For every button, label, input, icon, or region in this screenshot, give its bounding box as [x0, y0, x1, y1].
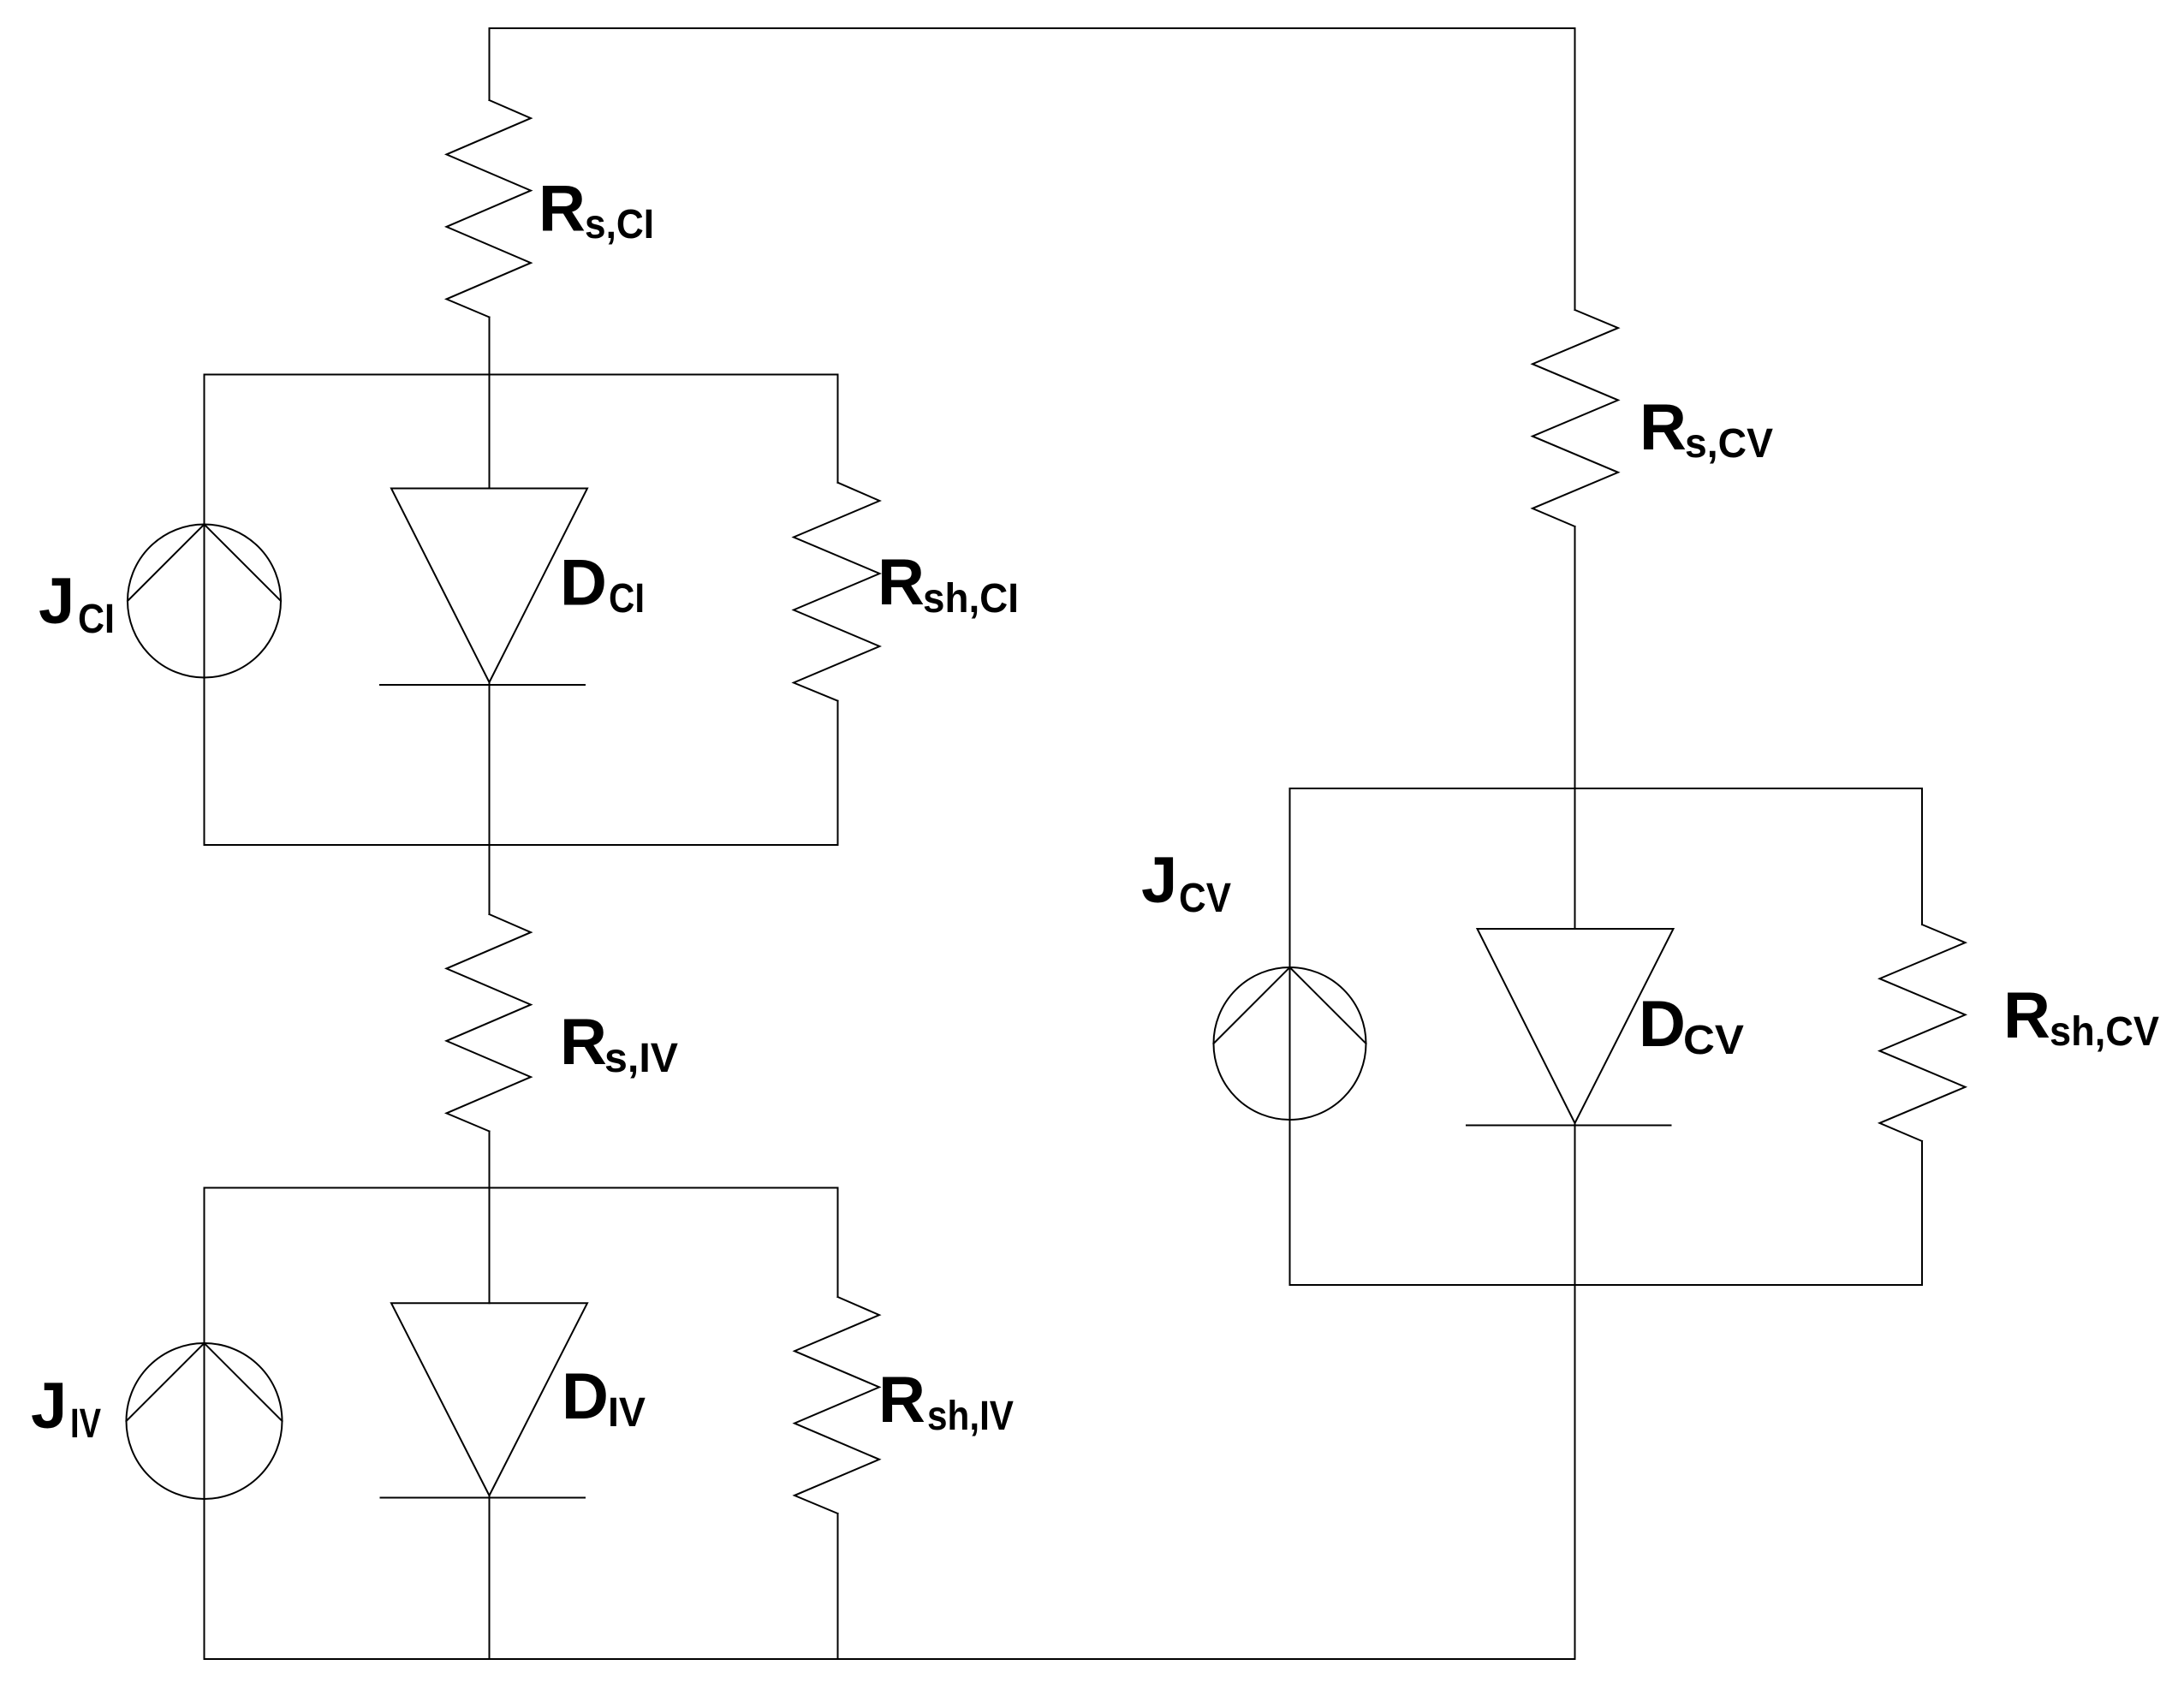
wire bottom horizontal [205, 1658, 1575, 1660]
svg-text:R: R [2003, 979, 2050, 1052]
wire R_s,CI to CI box [489, 318, 491, 375]
diode D_CV [1478, 929, 1674, 1123]
svg-text:J: J [31, 1370, 67, 1442]
diode D_IV [391, 1303, 587, 1496]
resistor R_s,IV [447, 914, 532, 1132]
svg-text:IV: IV [608, 1390, 646, 1436]
wire diode D_CI stem top [489, 375, 491, 489]
svg-text:R: R [878, 1364, 925, 1436]
wire diode D_CV stem top [1574, 788, 1576, 929]
wire R_sh,CV top stub [1921, 788, 1923, 925]
wire diode D_IV stem top [489, 1188, 491, 1304]
svg-text:IV: IV [70, 1401, 101, 1447]
wire CV box left vertical [1289, 788, 1291, 1285]
wire CV box top [1290, 788, 1923, 789]
diode D_CI [391, 489, 587, 683]
svg-text:J: J [1141, 844, 1177, 917]
svg-text:sh,CV: sh,CV [2050, 1009, 2159, 1055]
wire diode D_CV stem bottom [1574, 1123, 1576, 1659]
resistor R_sh,CV [1880, 925, 1966, 1141]
wire diode D_IV stem bottom [489, 1496, 491, 1659]
svg-text:CI: CI [609, 576, 645, 621]
svg-text:R: R [560, 1006, 607, 1079]
wire top horizontal [490, 27, 1575, 29]
wire CI box left vertical [204, 375, 205, 846]
wire CV box bottom [1290, 1284, 1923, 1286]
wire R_sh,IV bottom stub [837, 1514, 839, 1659]
svg-text:sh,CI: sh,CI [923, 576, 1019, 621]
current source J_IV [127, 1343, 283, 1499]
svg-text:s,IV: s,IV [604, 1036, 678, 1081]
svg-text:D: D [562, 1360, 609, 1433]
wire R_s,IV to IV box [489, 1132, 491, 1188]
svg-text:D: D [560, 547, 607, 620]
svg-text:R: R [1639, 391, 1687, 464]
svg-text:R: R [539, 173, 586, 246]
svg-text:s,CV: s,CV [1685, 421, 1773, 467]
resistor R_sh,CI [794, 483, 879, 701]
resistor R_s,CI [447, 100, 532, 318]
svg-text:s,CI: s,CI [585, 202, 654, 247]
wire R_sh,CI top stub [837, 375, 839, 483]
wire node CI-IV [489, 845, 491, 914]
current source J_CV [1214, 967, 1366, 1120]
wire IV box top [205, 1187, 838, 1189]
wire CI box top [205, 374, 838, 376]
wire diode D_CI stem bottom [489, 682, 491, 845]
svg-text:sh,IV: sh,IV [927, 1394, 1014, 1439]
wire R_sh,CV bottom stub [1921, 1141, 1923, 1285]
current source J_CI [128, 525, 281, 678]
svg-text:CV: CV [1683, 1018, 1744, 1063]
wire IV box left vertical [204, 1188, 205, 1660]
wire right top vertical [1574, 28, 1576, 310]
resistor R_s,CV [1532, 310, 1618, 526]
wire left top vertical [489, 28, 491, 100]
wire R_sh,IV top stub [837, 1188, 839, 1298]
resistor R_sh,IV [794, 1297, 879, 1514]
wire R_sh,CI bottom stub [837, 701, 839, 845]
svg-text:J: J [39, 565, 74, 638]
svg-text:CV: CV [1179, 876, 1231, 921]
svg-text:CI: CI [78, 597, 115, 642]
wire CI box bottom [205, 844, 838, 846]
svg-text:R: R [878, 546, 925, 619]
wire R_s,CV to CV box [1574, 526, 1576, 788]
svg-text:D: D [1639, 988, 1686, 1061]
